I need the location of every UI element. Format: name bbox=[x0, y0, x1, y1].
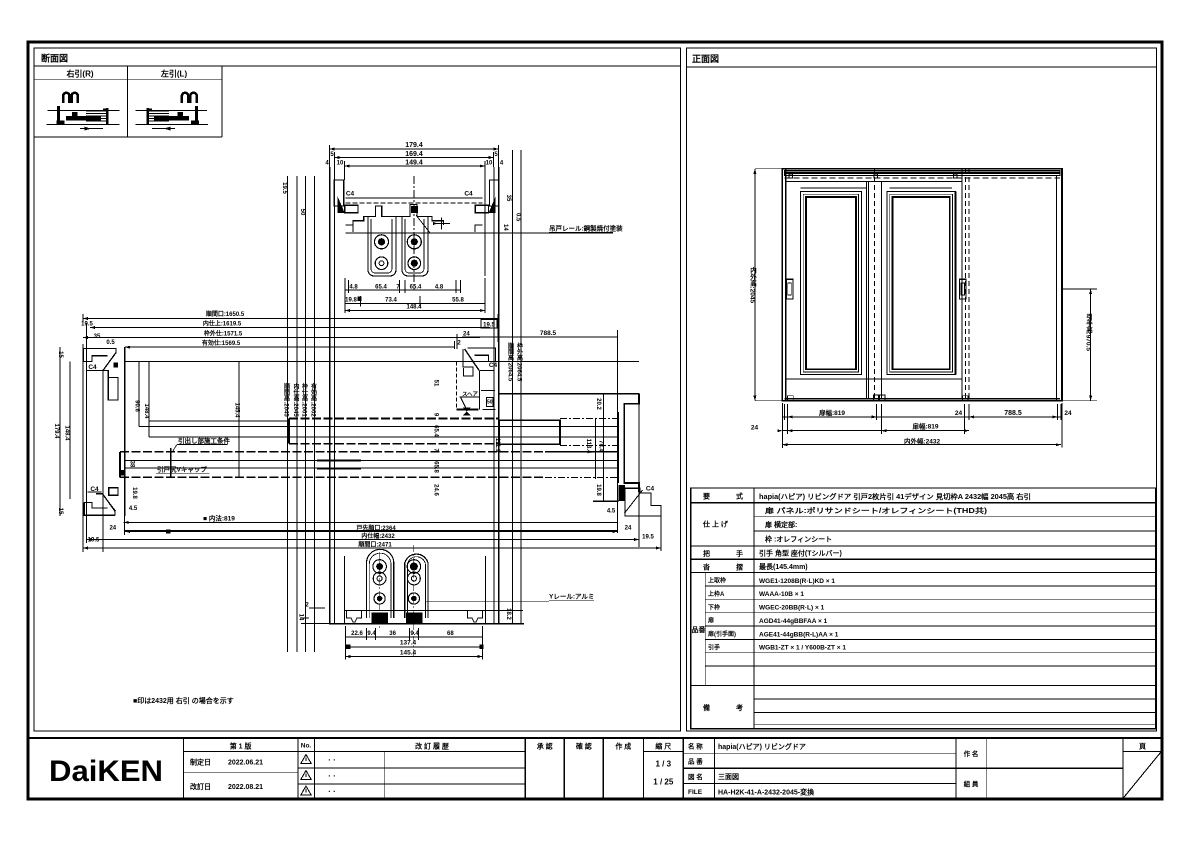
svg-text:WGEC-20BB(R·L) × 1: WGEC-20BB(R·L) × 1 bbox=[759, 605, 825, 612]
svg-text:枠外仕:1571.5: 枠外仕:1571.5 bbox=[204, 329, 243, 337]
svg-text:改訂日: 改訂日 bbox=[190, 782, 211, 791]
frame inner right line bbox=[1055, 176, 1057, 401]
left jamb top block bbox=[84, 349, 119, 401]
dim 788.5 row bbox=[462, 336, 618, 338]
title block verticals bbox=[182, 738, 184, 799]
svg-text:145.4: 145.4 bbox=[400, 649, 417, 656]
band A right solid case bbox=[499, 420, 560, 444]
svg-text:19.8: 19.8 bbox=[131, 487, 137, 499]
opening head line bbox=[125, 361, 639, 363]
long vertical projection pair (2064.5) bbox=[512, 150, 514, 624]
svg-text:Yレール:アルミ: Yレール:アルミ bbox=[549, 593, 594, 601]
right box header line bbox=[687, 66, 1157, 68]
boxed 19.5 right bbox=[481, 320, 497, 329]
hidden track dashed bbox=[785, 177, 1060, 179]
bottom wall verticals left bbox=[343, 556, 345, 624]
wheels right housing bbox=[407, 235, 421, 249]
Y rail slots bbox=[347, 611, 362, 622]
svg-text:右引(R): 右引(R) bbox=[65, 69, 93, 79]
svg-text:上取枠: 上取枠 bbox=[708, 577, 726, 585]
right handle-height dim bbox=[1090, 289, 1092, 401]
svg-text:要: 要 bbox=[703, 492, 710, 501]
svg-text:24: 24 bbox=[109, 525, 116, 531]
right inner box (front view) bbox=[687, 48, 1157, 731]
svg-text:65.8: 65.8 bbox=[433, 461, 439, 473]
svg-text:4.5: 4.5 bbox=[607, 509, 616, 515]
svg-text:縮 尺: 縮 尺 bbox=[655, 742, 671, 751]
hanger centerline bbox=[413, 176, 415, 290]
svg-text:WGB1-ZT × 1 / Y600B-ZT × 1: WGB1-ZT × 1 / Y600B-ZT × 1 bbox=[759, 645, 846, 652]
band A upper door dashed bbox=[289, 418, 499, 420]
top dim stack lines bbox=[83, 318, 498, 320]
boxed 50 bbox=[487, 398, 494, 407]
svg-text:確 認: 確 認 bbox=[576, 742, 592, 751]
bottom dim rows of plan bbox=[125, 530, 618, 532]
svg-text:149.4: 149.4 bbox=[405, 159, 423, 166]
145.4 dim extension bbox=[238, 362, 240, 477]
svg-text:· ·: · · bbox=[328, 787, 336, 796]
svg-text:第 1 版: 第 1 版 bbox=[230, 742, 252, 751]
svg-text:内仕上:1619.5: 内仕上:1619.5 bbox=[203, 320, 242, 328]
bottom dim row B 137.4 bbox=[348, 646, 481, 648]
svg-text:35: 35 bbox=[94, 334, 101, 340]
svg-text:169.4: 169.4 bbox=[405, 151, 423, 158]
svg-text:下枠: 下枠 bbox=[708, 603, 720, 611]
left jamb bottom block bbox=[96, 494, 115, 516]
bottom dim row2 bbox=[782, 430, 969, 432]
svg-text:19.5: 19.5 bbox=[483, 322, 495, 328]
svg-text:図 名: 図 名 bbox=[688, 772, 703, 781]
svg-text:50: 50 bbox=[487, 400, 493, 406]
left-sliding icon bbox=[136, 93, 208, 131]
svg-text:摺: 摺 bbox=[736, 563, 743, 572]
floor sill steps bbox=[344, 610, 523, 612]
svg-text:15: 15 bbox=[57, 508, 63, 515]
svg-text:1 / 25: 1 / 25 bbox=[653, 778, 674, 787]
naiho 819 dim line bbox=[124, 521, 618, 523]
svg-text:65.4: 65.4 bbox=[410, 284, 422, 290]
svg-text:引戸尻Vキャップ: 引戸尻Vキャップ bbox=[157, 465, 207, 474]
anchor blocks under housings bbox=[372, 613, 389, 624]
svg-text:113.4: 113.4 bbox=[585, 439, 591, 454]
right wall profile bbox=[624, 394, 639, 492]
svg-text:枠 :オレフィンシート: 枠 :オレフィンシート bbox=[765, 535, 832, 544]
svg-text:9.4: 9.4 bbox=[410, 631, 419, 637]
svg-text:788.5: 788.5 bbox=[1004, 410, 1022, 417]
door2 leading edge bbox=[954, 191, 956, 374]
svg-text:· ·: · · bbox=[328, 772, 336, 781]
svg-text:C4: C4 bbox=[88, 364, 97, 371]
dim extension verticals right labels bbox=[603, 394, 605, 501]
right bottom jamb block bbox=[625, 488, 661, 516]
svg-text:品 番: 品 番 bbox=[688, 757, 703, 766]
bottom wheels right bbox=[407, 560, 421, 574]
svg-text:スヘア: スヘア bbox=[462, 391, 479, 398]
bottom dim row1 bbox=[782, 416, 1062, 418]
svg-text:19.5: 19.5 bbox=[642, 535, 654, 541]
bottom roller housing left bbox=[367, 549, 394, 618]
door bottom rail lines bbox=[786, 378, 962, 380]
svg-text:145.4: 145.4 bbox=[234, 402, 240, 418]
svg-text:24: 24 bbox=[625, 526, 632, 532]
svg-text:備: 備 bbox=[703, 703, 710, 712]
svg-text:順間口:2471: 順間口:2471 bbox=[357, 540, 392, 548]
meeting stile dashed centerline bbox=[873, 169, 875, 401]
dim 179.4 head width bbox=[330, 148, 499, 150]
panel face line bbox=[149, 420, 289, 422]
bottom wheels left bbox=[373, 560, 387, 574]
bottom roller housing right bbox=[405, 554, 428, 618]
svg-text:式: 式 bbox=[736, 492, 743, 501]
right-sliding icon bbox=[47, 93, 120, 131]
dim 149.4 bbox=[345, 165, 485, 167]
svg-text:1 / 3: 1 / 3 bbox=[656, 760, 672, 769]
svg-text:戸先順口:2364: 戸先順口:2364 bbox=[356, 524, 396, 532]
svg-text:最長(145.4mm): 最長(145.4mm) bbox=[759, 562, 808, 571]
extension verticals of head dims bbox=[329, 145, 331, 167]
head plate lines bbox=[345, 197, 482, 199]
door top rail line bbox=[786, 180, 962, 182]
label column divider bbox=[753, 488, 755, 729]
svg-text:C4: C4 bbox=[646, 486, 655, 493]
bottom dim row A bbox=[345, 636, 482, 638]
svg-text:4.8: 4.8 bbox=[349, 284, 358, 290]
svg-text:名 称: 名 称 bbox=[688, 742, 703, 751]
svg-text:148.4: 148.4 bbox=[63, 425, 69, 441]
pocket-side jamb block bbox=[467, 348, 495, 362]
svg-text:■印は2432用 右引 の場合を示す: ■印は2432用 右引 の場合を示す bbox=[133, 696, 234, 705]
svg-text:作 名: 作 名 bbox=[964, 749, 979, 758]
svg-text:扉(引手面): 扉(引手面) bbox=[707, 630, 736, 638]
spec table frame bbox=[691, 488, 1156, 729]
svg-text:引手 角型 座付(Tシルバー): 引手 角型 座付(Tシルバー) bbox=[759, 549, 842, 558]
svg-text:4.5: 4.5 bbox=[129, 506, 138, 512]
bottom dim row C 145.4 bbox=[345, 656, 482, 658]
svg-text:65.4: 65.4 bbox=[433, 425, 439, 437]
svg-text:上枠A: 上枠A bbox=[708, 590, 725, 598]
bottom dim row3 bbox=[782, 444, 1061, 446]
svg-text:24: 24 bbox=[463, 332, 470, 338]
svg-text:C4: C4 bbox=[464, 191, 473, 198]
svg-text:作 成: 作 成 bbox=[615, 742, 631, 751]
svg-text:15: 15 bbox=[57, 351, 63, 358]
svg-text:制定日: 制定日 bbox=[190, 758, 211, 767]
svg-text:2022.06.21: 2022.06.21 bbox=[228, 760, 263, 767]
svg-text:吊戸レール:鋼製焼付塗装: 吊戸レール:鋼製焼付塗装 bbox=[549, 224, 623, 233]
svg-text:有効仕:1569.5: 有効仕:1569.5 bbox=[202, 339, 241, 347]
svg-text:DaiKEN: DaiKEN bbox=[49, 755, 163, 788]
bottom wall verticals right bbox=[485, 556, 487, 624]
svg-text:扉幅:819: 扉幅:819 bbox=[819, 408, 845, 417]
svg-text:10: 10 bbox=[337, 161, 344, 167]
svg-text:24: 24 bbox=[1064, 410, 1072, 417]
svg-text:考: 考 bbox=[736, 703, 743, 712]
svg-text:三面図: 三面図 bbox=[718, 772, 739, 781]
svg-text:扉: 扉 bbox=[707, 617, 714, 625]
rail leader line bbox=[416, 215, 427, 228]
adjuster cross mark bbox=[434, 223, 450, 225]
svg-text:179.4: 179.4 bbox=[405, 142, 423, 149]
svg-text:65.4: 65.4 bbox=[375, 284, 387, 290]
band B leading edge cap bbox=[170, 448, 172, 478]
svg-text:10: 10 bbox=[486, 161, 493, 167]
svg-text:No.: No. bbox=[301, 743, 312, 750]
elevation outer frame bbox=[782, 169, 1062, 401]
svg-text:14: 14 bbox=[298, 614, 304, 621]
svg-text:19.8: 19.8 bbox=[345, 297, 357, 303]
svg-text:HA-H2K-41-A-2432-2045-変換: HA-H2K-41-A-2432-2045-変換 bbox=[718, 787, 815, 796]
svg-text:148.4: 148.4 bbox=[406, 305, 422, 311]
svg-text:179.4: 179.4 bbox=[53, 423, 59, 439]
svg-text:WAAA-10B × 1: WAAA-10B × 1 bbox=[759, 591, 804, 598]
svg-text:AGD41-44gBBFAA × 1: AGD41-44gBBFAA × 1 bbox=[759, 618, 828, 625]
corner / stile blocks top bbox=[789, 174, 793, 178]
svg-text:把: 把 bbox=[703, 549, 710, 558]
svg-text:沓: 沓 bbox=[702, 563, 711, 572]
svg-text:有効高:2002: 有効高:2002 bbox=[310, 383, 317, 418]
svg-text:9.4: 9.4 bbox=[367, 631, 376, 637]
svg-text:55.8: 55.8 bbox=[452, 297, 464, 303]
dim extension verticals 90.6 148.4 bbox=[138, 362, 140, 427]
svg-text:C4: C4 bbox=[489, 362, 498, 369]
svg-text:22.6: 22.6 bbox=[351, 631, 363, 637]
svg-text:内仕幅:2432: 内仕幅:2432 bbox=[361, 532, 395, 540]
svg-text:0.5: 0.5 bbox=[515, 213, 521, 222]
plan horizontal lines right part bbox=[560, 418, 618, 420]
svg-text:C4: C4 bbox=[90, 486, 99, 493]
warning triangles bbox=[301, 755, 311, 796]
svg-text:扉 パネル:ポリサンドシート/オレフィンシート(THD共): 扉 パネル:ポリサンドシート/オレフィンシート(THD共) bbox=[764, 506, 987, 515]
floor line bbox=[329, 623, 524, 625]
top line of case bbox=[499, 393, 639, 395]
title block top heavy line bbox=[28, 737, 1162, 739]
svg-text:137.4: 137.4 bbox=[400, 640, 417, 647]
long vertical projection lines group (2045 dims) bbox=[287, 176, 289, 652]
svg-text:承 認: 承 認 bbox=[537, 742, 553, 751]
svg-text:扉幅:819: 扉幅:819 bbox=[912, 422, 938, 431]
left height dim bbox=[754, 169, 756, 401]
revision area rows bbox=[183, 751, 525, 753]
svg-text:14: 14 bbox=[502, 224, 508, 231]
housing center dashed bbox=[379, 552, 381, 628]
left head bracket bbox=[334, 180, 344, 206]
svg-text:2022.08.21: 2022.08.21 bbox=[228, 784, 263, 791]
svg-text:68: 68 bbox=[447, 631, 454, 637]
svg-text:断面図: 断面図 bbox=[41, 53, 68, 64]
svg-text:AGE41-44gBB(R-L)AA × 1: AGE41-44gBB(R-L)AA × 1 bbox=[759, 631, 839, 638]
svg-text:内外幅:2432: 内外幅:2432 bbox=[904, 436, 941, 445]
roller housing left bbox=[368, 216, 396, 276]
svg-text:引出し部施工条件: 引出し部施工条件 bbox=[178, 436, 231, 445]
hanger top plate bbox=[353, 205, 444, 225]
svg-text:FILE: FILE bbox=[688, 789, 703, 796]
name rows bbox=[683, 752, 956, 754]
left small dims bbox=[309, 607, 325, 609]
svg-text:hapia(ハピア) リビングドア: hapia(ハピア) リビングドア bbox=[718, 742, 806, 751]
svg-text:WGE1-1208B(R·L)KD × 1: WGE1-1208B(R·L)KD × 1 bbox=[759, 578, 835, 585]
door2 panel insets bbox=[887, 191, 956, 374]
svg-text:手: 手 bbox=[736, 549, 743, 558]
svg-text:19.8: 19.8 bbox=[595, 484, 601, 496]
svg-text:36: 36 bbox=[389, 631, 396, 637]
svg-text:仕 上 げ: 仕 上 げ bbox=[702, 520, 729, 529]
Y rail leader bbox=[426, 601, 549, 603]
far-left vertical dims bbox=[59, 347, 61, 516]
roller housing right bbox=[402, 216, 428, 276]
svg-text:順間口:1650.5: 順間口:1650.5 bbox=[205, 310, 245, 318]
svg-text:C4: C4 bbox=[346, 191, 355, 198]
svg-text:左引(L): 左引(L) bbox=[160, 69, 188, 79]
svg-text:· ·: · · bbox=[328, 756, 336, 765]
left inner box (section views) bbox=[34, 48, 681, 731]
svg-text:20.2: 20.2 bbox=[595, 398, 601, 410]
svg-text:51: 51 bbox=[433, 380, 439, 387]
svg-text:35: 35 bbox=[505, 195, 511, 202]
svg-text:73.4: 73.4 bbox=[385, 297, 397, 303]
svg-text:改 訂 履 歴: 改 訂 履 歴 bbox=[415, 742, 449, 751]
svg-text:19.5: 19.5 bbox=[281, 182, 287, 194]
left box header line bbox=[34, 65, 681, 67]
svg-text:24.6: 24.6 bbox=[433, 484, 439, 496]
svg-text:78.4: 78.4 bbox=[598, 440, 604, 452]
door leaf 1 bbox=[785, 169, 787, 401]
svg-text:品番: 品番 bbox=[692, 625, 707, 634]
svg-text:111.9: 111.9 bbox=[494, 438, 500, 453]
svg-text:0.5: 0.5 bbox=[106, 340, 115, 346]
svg-text:hapia(ハピア) リビングドア 引戸2枚片引 41デザイ: hapia(ハピア) リビングドア 引戸2枚片引 41デザイン 見切枠A 243… bbox=[759, 492, 1031, 501]
svg-text:正面図: 正面図 bbox=[692, 54, 719, 64]
door leading edge heavy segments bbox=[317, 460, 361, 462]
left wall verticals bbox=[329, 167, 331, 624]
svg-text:19.5: 19.5 bbox=[81, 322, 93, 328]
svg-text:148.4: 148.4 bbox=[143, 403, 149, 419]
section-type table frame bbox=[34, 79, 222, 81]
svg-text:■ 内法:819: ■ 内法:819 bbox=[203, 514, 235, 523]
scale col header line bbox=[643, 751, 683, 753]
svg-text:38: 38 bbox=[129, 461, 135, 468]
lock block bbox=[411, 206, 418, 213]
handles bbox=[786, 279, 793, 299]
svg-text:扉 横定部:: 扉 横定部: bbox=[764, 520, 797, 529]
band B left door dashed bbox=[120, 451, 545, 453]
svg-text:788.5: 788.5 bbox=[540, 330, 557, 337]
svg-text:90.6: 90.6 bbox=[134, 400, 140, 412]
row lines bbox=[691, 502, 1156, 504]
svg-text:19.5: 19.5 bbox=[88, 538, 100, 544]
svg-text:頁: 頁 bbox=[1139, 743, 1146, 751]
svg-text:50: 50 bbox=[299, 209, 305, 216]
wheels left housing bbox=[375, 235, 389, 249]
left jamb vertical faces bbox=[102, 371, 104, 552]
right head bracket bbox=[489, 180, 499, 206]
svg-text:24: 24 bbox=[751, 425, 759, 432]
svg-text:組 員: 組 員 bbox=[964, 779, 979, 788]
sub label divider bbox=[704, 573, 706, 686]
svg-text:24: 24 bbox=[955, 410, 963, 417]
right wall verticals bbox=[498, 167, 500, 624]
top rail dark band bbox=[785, 171, 1060, 176]
dims under head section bbox=[345, 289, 460, 291]
page cell bbox=[1123, 751, 1162, 753]
svg-text:18.2: 18.2 bbox=[505, 608, 511, 620]
band B inner lines bbox=[125, 460, 619, 462]
dim 169.4 bbox=[335, 157, 494, 159]
door1 panel insets bbox=[800, 191, 861, 374]
bottom corner blocks bbox=[787, 396, 793, 401]
svg-text:4.8: 4.8 bbox=[435, 284, 444, 290]
svg-text:引手: 引手 bbox=[708, 643, 720, 651]
